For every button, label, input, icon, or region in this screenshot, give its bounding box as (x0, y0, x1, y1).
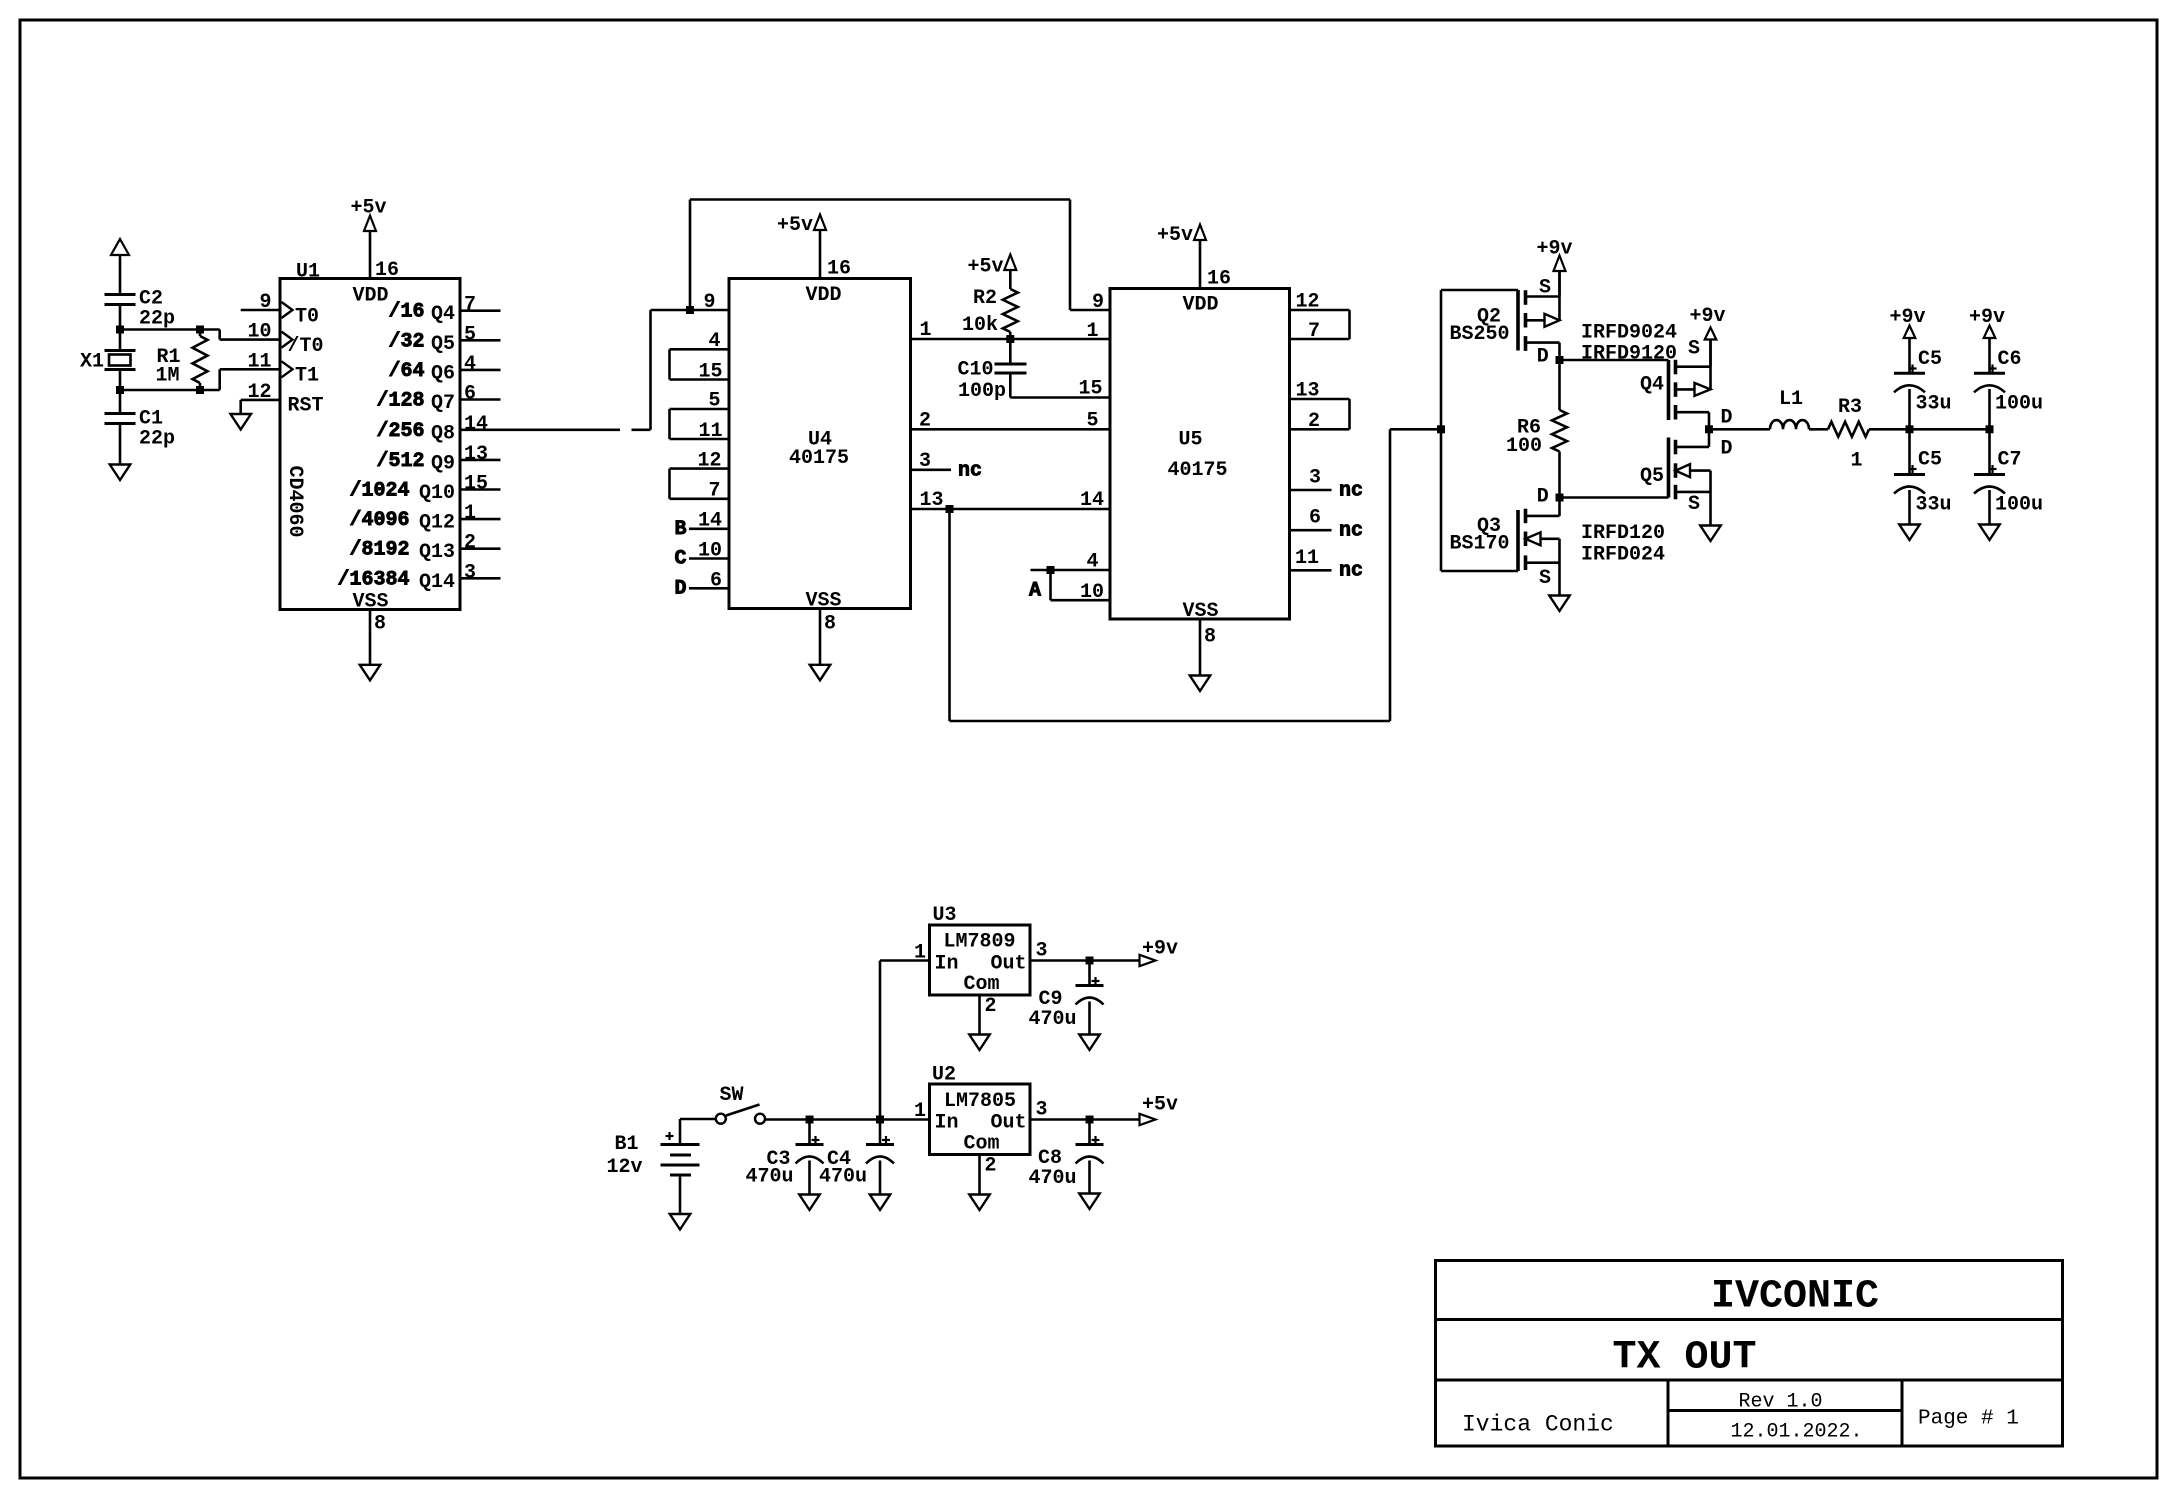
svg-text:3: 3 (464, 561, 476, 584)
title IVCONIC (1711, 1275, 1879, 1320)
svg-text:Q14: Q14 (419, 571, 455, 594)
capacitor C2 (105, 288, 176, 331)
wire U4 pin1 to U5 pin1 (911, 338, 1111, 341)
svg-text:3: 3 (919, 450, 931, 473)
U1 pin 6 Q7 /128 (460, 398, 501, 401)
svg-text:A: A (1029, 580, 1041, 603)
svg-text:VDD: VDD (353, 285, 389, 308)
U5 pin 6 nc (1290, 529, 1332, 532)
svg-text:R3: R3 (1838, 396, 1862, 419)
capacitor C5 33u upper (1894, 348, 1952, 429)
wire U4 pin13 to U5 pin14 (911, 508, 1111, 511)
U1 pin 15 Q10 /1024 (460, 488, 501, 491)
wire feedback top (690, 200, 1110, 311)
wire U1 pin 9 stub (241, 309, 280, 312)
svg-text:100p: 100p (958, 380, 1006, 403)
svg-text:/16384: /16384 (337, 568, 409, 591)
capacitor C6 100u (1974, 348, 2043, 429)
ground at Q5 source (1700, 526, 1721, 542)
svg-text:/T0: /T0 (288, 335, 324, 358)
svg-text:Q6: Q6 (431, 362, 455, 385)
node Q3 drain (1556, 494, 1564, 502)
svg-text:nc: nc (958, 460, 982, 483)
svg-text:D: D (1721, 407, 1733, 430)
svg-text:2: 2 (985, 995, 997, 1018)
U4 pins 12/7 boxed (670, 467, 730, 470)
node C5 rail (1906, 425, 1914, 433)
svg-text:13: 13 (1296, 380, 1320, 403)
svg-text:16: 16 (827, 258, 851, 281)
svg-text:Com: Com (964, 1133, 1000, 1156)
crystal X1 (80, 330, 136, 391)
svg-text:Q13: Q13 (419, 541, 455, 564)
svg-text:U5: U5 (1179, 429, 1203, 452)
wire R3 to caps (1869, 428, 1990, 431)
svg-text:13: 13 (464, 443, 488, 466)
svg-text:+5v: +5v (1142, 1094, 1178, 1117)
svg-text:S: S (1688, 338, 1700, 361)
regulator U2 LM7805 (914, 1064, 1048, 1195)
svg-text:10: 10 (698, 540, 722, 563)
svg-text:In: In (935, 1112, 959, 1135)
svg-text:/64: /64 (388, 360, 424, 383)
svg-text:+9v: +9v (1690, 305, 1726, 328)
svg-text:16: 16 (1207, 268, 1231, 291)
svg-text:10: 10 (1080, 581, 1104, 604)
svg-text:B: B (674, 518, 686, 541)
ground below C8 (1079, 1194, 1100, 1210)
resistor R3 1 (1828, 396, 1869, 473)
IC U4 40175 (670, 279, 983, 613)
svg-text:33u: 33u (1916, 494, 1952, 517)
svg-text:1: 1 (1086, 320, 1098, 343)
svg-text:S: S (1539, 567, 1551, 590)
U4 pin 16 +5v supply (777, 214, 851, 281)
ground below C3 (799, 1195, 820, 1211)
svg-text:LM7805: LM7805 (944, 1090, 1016, 1113)
wire U1 pin 12 to ground (241, 400, 280, 414)
U5 pin 3 nc (1290, 489, 1332, 492)
capacitor C3 470u (745, 1120, 823, 1195)
svg-text:12.01.2022.: 12.01.2022. (1731, 1421, 1863, 1444)
node C8 junction (1086, 1116, 1094, 1124)
svg-text:9: 9 (1092, 291, 1104, 314)
battery B1 12v (606, 1119, 716, 1214)
power +9v at Q2 source (1537, 238, 1573, 297)
switch SW (716, 1084, 765, 1124)
U1 pin 11 T1 (282, 361, 293, 377)
svg-text:Q4: Q4 (431, 303, 455, 326)
svg-text:/32: /32 (388, 330, 424, 353)
U5 pins 12/7 boxed (1290, 309, 1350, 312)
svg-text:9: 9 (703, 291, 715, 314)
svg-text:S: S (1688, 493, 1700, 516)
svg-text:12: 12 (1296, 291, 1320, 314)
resistor R1 1M (155, 326, 207, 395)
svg-text:nc: nc (1339, 520, 1363, 543)
transistor Q3 BS170 (1450, 486, 1560, 596)
svg-text:Ivica Conic: Ivica Conic (1462, 1412, 1614, 1438)
svg-text:6: 6 (710, 569, 722, 592)
svg-text:+9v: +9v (1969, 306, 2005, 329)
U4 pins 4/15 boxed (670, 348, 730, 351)
ground below C7 (1979, 525, 2000, 541)
svg-text:IRFD9120: IRFD9120 (1581, 343, 1677, 366)
U4 pin 3 nc (911, 468, 952, 471)
ground below C1 (110, 465, 131, 481)
U1 pin 2 Q13 /8192 (460, 547, 501, 550)
U1 pin 7 Q4 /16 (460, 309, 501, 312)
ground below C4 (870, 1195, 891, 1211)
svg-text:22p: 22p (139, 308, 175, 331)
svg-text:C10: C10 (957, 359, 993, 382)
svg-text:470u: 470u (1029, 1167, 1077, 1190)
svg-text:/128: /128 (376, 390, 424, 413)
svg-text:+5v: +5v (777, 214, 813, 237)
svg-text:14: 14 (698, 510, 722, 533)
U1 pin 13 Q9 /512 (460, 459, 501, 462)
svg-text:C7: C7 (1998, 449, 2022, 472)
U5 pin 11 nc (1290, 569, 1332, 572)
svg-text:T0: T0 (295, 306, 319, 329)
power rail arrow above C2 (111, 239, 129, 295)
node R2/C10 junction (1006, 335, 1014, 343)
wire U1 pin14 Q8 output (460, 310, 729, 430)
title author Ivica Conic (1462, 1412, 1614, 1438)
svg-text:5: 5 (708, 390, 720, 413)
svg-text:12: 12 (247, 381, 271, 404)
wire switch to U2 In (765, 1118, 930, 1121)
svg-text:Q5: Q5 (431, 333, 455, 356)
svg-text:In: In (935, 953, 959, 976)
svg-text:1: 1 (914, 942, 926, 965)
power +9v output arrow (1140, 938, 1179, 967)
ground at Q3 source (1549, 596, 1570, 612)
U5 pins 13/2 boxed (1290, 398, 1350, 401)
svg-text:100: 100 (1506, 435, 1542, 458)
svg-text:Out: Out (990, 1112, 1026, 1135)
svg-text:CD4060: CD4060 (283, 465, 306, 537)
wire U2 Out to +5v (1030, 1118, 1140, 1121)
svg-text:15: 15 (464, 473, 488, 496)
svg-text:12: 12 (697, 450, 721, 473)
wire U3 Out to +9v (1030, 959, 1140, 962)
U5 pin 16 +5v supply (1157, 224, 1231, 291)
capacitor C1 (105, 390, 176, 465)
svg-text:Q12: Q12 (419, 512, 455, 535)
U1 pin 3 Q14 /16384 (460, 577, 501, 580)
wire Q2 drain to Q4 gate (1560, 359, 1669, 362)
transistor Q4 IRFD9024 (1581, 322, 1733, 430)
svg-text:VSS: VSS (806, 590, 842, 613)
svg-text:15: 15 (698, 361, 722, 384)
title TX OUT (1613, 1336, 1757, 1381)
svg-text:/1024: /1024 (349, 480, 409, 503)
svg-text:/256: /256 (376, 420, 424, 443)
svg-text:C5: C5 (1918, 348, 1942, 371)
svg-text:5: 5 (464, 323, 476, 346)
svg-text:Page # 1: Page # 1 (1918, 1408, 2019, 1431)
svg-text:16: 16 (375, 259, 399, 282)
svg-text:10: 10 (247, 321, 271, 344)
title Page # 1 (1918, 1408, 2019, 1431)
svg-text:100u: 100u (1995, 393, 2043, 416)
svg-text:15: 15 (1078, 378, 1102, 401)
svg-text:+5v: +5v (967, 256, 1003, 279)
ground below U1 (360, 665, 381, 681)
svg-text:8: 8 (824, 613, 836, 636)
ground below U4 (810, 665, 831, 681)
svg-text:+9v: +9v (1142, 938, 1178, 961)
svg-text:D: D (1537, 346, 1549, 369)
inductor L1 (1770, 388, 1809, 429)
U1 pin 4 Q6 /64 (460, 369, 501, 372)
svg-text:1: 1 (1851, 450, 1863, 473)
svg-text:1M: 1M (155, 365, 179, 388)
svg-text:/4096: /4096 (349, 509, 409, 532)
svg-text:U2: U2 (932, 1064, 956, 1087)
svg-text:C5: C5 (1918, 449, 1942, 472)
svg-text:Q9: Q9 (431, 452, 455, 475)
U4 pin 14 net B (689, 527, 729, 530)
transistor Q2 BS250 (1450, 271, 1560, 369)
title block (1436, 1261, 2063, 1447)
power +9v at Q4 source (1690, 305, 1726, 367)
svg-text:+9v: +9v (1537, 238, 1573, 261)
svg-text:470u: 470u (1029, 1008, 1077, 1031)
svg-text:+9v: +9v (1890, 306, 1926, 329)
node clock net at U4 pin 9 (686, 306, 694, 314)
U5 pin 8 ground (1200, 619, 1216, 676)
wire C10 to U5 pin 15 (1010, 396, 1110, 399)
svg-text:BS250: BS250 (1450, 323, 1510, 346)
svg-text:S: S (1539, 277, 1551, 300)
ground below C9 (1079, 1035, 1100, 1051)
regulator U3 LM7809 (914, 904, 1048, 1035)
capacitor C10 100p (957, 339, 1026, 403)
capacitor C8 470u (1029, 1120, 1104, 1194)
svg-text:nc: nc (1339, 560, 1363, 583)
svg-text:40175: 40175 (1168, 459, 1228, 482)
IC U1 CD4060 (247, 261, 500, 614)
resistor R6 100 (1506, 360, 1567, 498)
capacitor C5 33u lower (1894, 429, 1952, 524)
wire Q3 drain to Q5 gate (1560, 496, 1669, 499)
node Q2 drain (1556, 356, 1564, 364)
svg-text:VDD: VDD (806, 284, 842, 307)
svg-text:7: 7 (464, 294, 476, 317)
svg-text:4: 4 (464, 353, 476, 376)
node C3 junction (806, 1116, 814, 1124)
svg-text:IRFD120: IRFD120 (1581, 522, 1665, 545)
title date 12.01.2022. (1731, 1421, 1863, 1444)
U1 pin 8 ground (370, 610, 386, 665)
svg-text:RST: RST (288, 395, 324, 418)
node C4 junction (876, 1116, 884, 1124)
svg-text:C6: C6 (1998, 348, 2022, 371)
node C6 rail (1986, 425, 1994, 433)
svg-text:2: 2 (1308, 410, 1320, 433)
ground at U2 Com (969, 1195, 990, 1211)
power +9v above C6 (1969, 306, 2005, 373)
svg-text:100u: 100u (1995, 494, 2043, 517)
svg-text:11: 11 (1295, 547, 1319, 570)
wire R1 bottom to U1 pin 11 (200, 369, 280, 390)
svg-text:11: 11 (247, 350, 271, 373)
ground below lower C5 (1899, 525, 1920, 541)
node at C2/X1/R1 top (116, 326, 124, 334)
U1 pin 10 /T0 (282, 332, 293, 348)
svg-text:8: 8 (1204, 626, 1216, 649)
node output Q4/Q5 drains (1705, 425, 1713, 433)
svg-text:TX OUT: TX OUT (1613, 1336, 1757, 1381)
svg-text:1: 1 (464, 502, 476, 525)
svg-text:IRFD024: IRFD024 (1581, 544, 1665, 567)
svg-text:LM7809: LM7809 (944, 931, 1016, 954)
svg-text:3: 3 (1036, 1099, 1048, 1122)
svg-text:6: 6 (1309, 507, 1321, 530)
power +9v above C5 (1890, 306, 1926, 373)
svg-text:Q8: Q8 (431, 422, 455, 445)
svg-text:40175: 40175 (789, 447, 849, 470)
U4 pin 10 net C (689, 557, 729, 560)
svg-text:10k: 10k (962, 314, 998, 337)
svg-text:4: 4 (1086, 551, 1098, 574)
svg-text:3: 3 (1309, 467, 1321, 490)
svg-text:/8192: /8192 (349, 539, 409, 562)
U4 pin 8 ground (820, 609, 836, 665)
svg-text:6: 6 (464, 383, 476, 406)
wire gate rail (1441, 290, 1518, 571)
wire U4 pin13 down and around to Q2/Q3 gates (950, 429, 1442, 721)
svg-text:L1: L1 (1779, 388, 1803, 411)
svg-text:D: D (674, 578, 686, 601)
node C9 junction (1086, 957, 1094, 965)
node U4 pin13 branch (946, 505, 954, 513)
transistor Q5 IRFD120 (1581, 429, 1733, 566)
wire output to L1 (1709, 428, 1770, 431)
U1 pin 1 Q12 /4096 (460, 518, 501, 521)
wire L1 to R3 (1809, 428, 1828, 431)
svg-text:IRFD9024: IRFD9024 (1581, 322, 1677, 345)
ground at U1 RST (230, 414, 251, 430)
svg-text:22p: 22p (139, 428, 175, 451)
U1 pin 9 T0 (282, 302, 293, 318)
svg-text:470u: 470u (745, 1166, 793, 1189)
U1 pin 5 Q5 /32 (460, 339, 501, 342)
svg-text:D: D (1721, 438, 1733, 461)
svg-text:2: 2 (464, 532, 476, 555)
svg-text:C: C (674, 548, 686, 571)
svg-text:U3: U3 (933, 904, 957, 927)
power +5v output arrow (1140, 1094, 1179, 1126)
svg-text:nc: nc (1339, 480, 1363, 503)
U4 pins 5/11 boxed (670, 408, 730, 411)
U5 pin 4 net A (1031, 569, 1111, 572)
ground below B1 (670, 1214, 691, 1230)
svg-text:+5v: +5v (351, 197, 387, 220)
svg-text:Q7: Q7 (431, 392, 455, 415)
svg-text:5: 5 (1086, 410, 1098, 433)
title Rev 1.0 (1739, 1391, 1823, 1414)
svg-text:Q4: Q4 (1640, 374, 1664, 397)
resistor R2 10k (962, 287, 1018, 339)
svg-text:SW: SW (720, 1084, 744, 1107)
svg-text:D: D (1537, 486, 1549, 509)
wire (120, 389, 200, 392)
svg-text:U1: U1 (296, 261, 320, 284)
svg-text:+5v: +5v (1157, 224, 1193, 247)
svg-text:12v: 12v (606, 1156, 642, 1179)
svg-text:Q5: Q5 (1640, 465, 1664, 488)
svg-text:470u: 470u (819, 1166, 867, 1189)
svg-text:/16: /16 (388, 301, 424, 324)
svg-text:3: 3 (1036, 940, 1048, 963)
wire C4 junction up to U3 In (880, 961, 930, 1120)
svg-text:2: 2 (985, 1155, 997, 1178)
svg-text:8: 8 (374, 613, 386, 636)
svg-text:14: 14 (1080, 489, 1104, 512)
svg-text:VDD: VDD (1183, 294, 1219, 317)
svg-text:T1: T1 (295, 365, 319, 388)
svg-text:/512: /512 (376, 450, 424, 473)
svg-text:33u: 33u (1916, 393, 1952, 416)
svg-text:7: 7 (1308, 320, 1320, 343)
U4 pin 6 net D (689, 587, 729, 590)
svg-text:9: 9 (259, 291, 271, 314)
svg-text:BS170: BS170 (1450, 533, 1510, 556)
wire (120, 328, 200, 331)
svg-text:Com: Com (964, 973, 1000, 996)
power +5v at R2 (967, 255, 1016, 290)
wire R1 top to U1 pin 10 (200, 330, 280, 340)
svg-text:B1: B1 (614, 1133, 638, 1156)
ground at U3 Com (969, 1035, 990, 1051)
IC U5 40175 (1029, 289, 1363, 624)
capacitor C9 470u (1029, 961, 1104, 1035)
svg-text:14: 14 (464, 413, 488, 436)
svg-text:4: 4 (708, 330, 720, 353)
node gate rail input (1437, 425, 1445, 433)
U1 pin 16 +5v supply (351, 197, 400, 283)
wire U4 pin2 to U5 pin5 (911, 428, 1111, 431)
svg-text:11: 11 (698, 420, 722, 443)
svg-text:R2: R2 (973, 287, 997, 310)
svg-text:X1: X1 (80, 351, 104, 374)
svg-text:Q10: Q10 (419, 482, 455, 505)
capacitor C7 100u (1974, 429, 2043, 524)
svg-text:IVCONIC: IVCONIC (1711, 1275, 1879, 1320)
node at X1/C1/R1 bottom (116, 386, 124, 394)
svg-text:Rev 1.0: Rev 1.0 (1739, 1391, 1823, 1414)
svg-text:7: 7 (708, 480, 720, 503)
capacitor C4 470u (819, 1120, 894, 1195)
ground below U5 (1190, 676, 1211, 692)
svg-text:1: 1 (914, 1100, 926, 1123)
